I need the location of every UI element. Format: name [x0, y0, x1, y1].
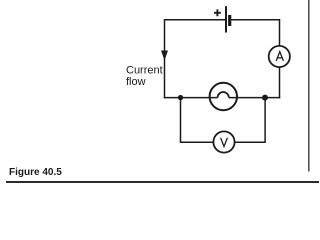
svg-text:Current: Current [126, 65, 163, 77]
wire left vertical [164, 19, 166, 98]
battery B1 negative plate [228, 15, 231, 26]
page bottom rule [6, 181, 319, 183]
wire bottom of main loop left [164, 97, 218, 99]
wire voltmeter branch bottom right [234, 141, 266, 143]
current direction arrow [161, 51, 168, 61]
node junction right [262, 95, 268, 101]
lamp L1 filament arc [218, 92, 229, 98]
voltmeter V1 [213, 131, 234, 152]
wire voltmeter branch bottom left [180, 141, 214, 143]
wire right vertical upper [279, 19, 281, 47]
wire voltmeter branch left vertical [180, 98, 182, 143]
wire right vertical lower [279, 67, 281, 99]
wire top, battery left side [165, 19, 226, 21]
svg-text:Figure 40.5: Figure 40.5 [9, 167, 62, 178]
wire top, battery right side [231, 19, 280, 21]
page right edge line [308, 0, 310, 172]
battery polarity label + [214, 9, 221, 16]
battery B1 positive plate [225, 6, 227, 32]
ammeter A1 [269, 46, 290, 67]
wire bottom of main loop right [229, 97, 280, 99]
wire voltmeter branch right vertical [264, 98, 266, 143]
node junction left [178, 95, 183, 100]
lamp L1 envelope [210, 83, 237, 110]
svg-text:flow: flow [126, 76, 146, 88]
